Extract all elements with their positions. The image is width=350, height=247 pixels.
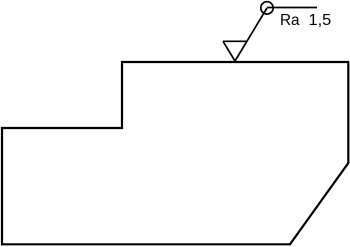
surface roughness symbol triangle left leg [223, 41, 235, 61]
surface roughness symbol top bar [223, 40, 247, 42]
svg-text:Ra: Ra [280, 12, 300, 29]
leader horizontal shelf line [267, 7, 317, 9]
leader circle [261, 2, 273, 14]
leader line (right leg extended) [235, 8, 267, 61]
part outline [2, 62, 348, 244]
svg-text:1,5: 1,5 [309, 12, 332, 29]
